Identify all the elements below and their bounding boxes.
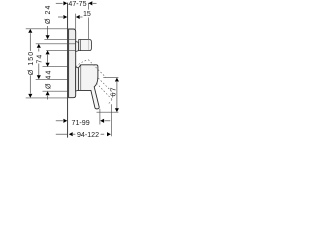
dim dia150 bottom arrow	[28, 94, 32, 98]
ext sleeve bottom	[43, 90, 68, 92]
hub sleeve/pedestal	[76, 67, 79, 91]
dim 94-122 left arrow	[69, 132, 73, 136]
svg-text:Ø 24: Ø 24	[45, 5, 52, 24]
dim dia24 top arrow	[46, 35, 50, 39]
knob collar line	[79, 40, 81, 51]
dim dia44 top arrow	[46, 63, 50, 67]
svg-text:47-75: 47-75	[68, 0, 86, 8]
svg-text:Ø 150: Ø 150	[28, 51, 35, 75]
escutcheon plate	[69, 29, 76, 98]
ext knob top	[44, 38, 75, 40]
ext lever axis right	[103, 77, 118, 79]
ext line dashed tip x=111.4	[110, 104, 112, 136]
dashed raised-handle outer edge	[88, 60, 106, 78]
dim 74 bottom arrow	[37, 75, 41, 79]
dim dia24 line upper	[47, 26, 49, 36]
ext line plate top	[26, 28, 68, 30]
dim 94-122 left tail	[56, 133, 68, 135]
dim dia24 bottom arrow	[46, 51, 50, 55]
ext line lever axis left	[36, 78, 68, 80]
dim 67 top arrow	[115, 78, 119, 82]
ext line solid lever tip x=99.9	[99, 109, 101, 125]
dim dia44 bottom tail	[47, 96, 49, 100]
ext line 47-75 right (knob chamfer)	[87, 3, 89, 10]
dim dia150 line lower	[29, 75, 31, 93]
knob chamfer line	[88, 40, 90, 51]
dim 74 line lower	[38, 64, 40, 76]
svg-text:94-122: 94-122	[77, 131, 99, 139]
dim 74 line upper	[38, 48, 40, 51]
dim 71-99 right tail	[105, 120, 111, 122]
dim 47-75 right tail	[93, 2, 97, 4]
dim 15 right tail	[80, 16, 82, 18]
dim 71-99 left arrow	[63, 119, 67, 123]
svg-text:15: 15	[83, 10, 91, 18]
svg-text:67: 67	[108, 86, 117, 96]
dim 67 bottom arrow	[115, 108, 119, 112]
dim 71-99 right arrow	[100, 119, 104, 123]
dim dia150 line upper	[29, 33, 31, 51]
ext knob bottom	[46, 49, 76, 51]
dim 74 top arrow	[37, 44, 41, 48]
svg-text:74: 74	[36, 54, 43, 64]
svg-text:71-99: 71-99	[72, 119, 90, 127]
dim 94-122 inner tail right	[101, 133, 105, 135]
svg-text:Ø 44: Ø 44	[46, 70, 53, 89]
knob pedestal	[76, 42, 79, 52]
dashed raised-handle arc	[76, 60, 88, 67]
dashed raised-handle middle edge	[98, 78, 112, 92]
ext line plate bottom	[26, 97, 68, 99]
text 15	[83, 10, 92, 17]
dim 15 left arrow	[63, 15, 67, 19]
dim 94-122 inner tail left	[73, 133, 75, 135]
wall line	[67, 3, 69, 138]
dashed raised-handle inner edge	[96, 83, 112, 100]
knob head	[79, 40, 92, 51]
dim 94-122 right arrow	[107, 132, 111, 136]
dim 15 left tail	[58, 16, 63, 18]
dim 47-75 left arrow	[63, 1, 67, 5]
dim dia150 top arrow	[28, 29, 32, 33]
hub collar line	[80, 65, 82, 90]
ext line 15 right (plate front)	[75, 14, 77, 30]
dim 15 right arrow	[76, 15, 80, 19]
ext line knob axis	[36, 43, 76, 45]
dim dia44 bottom arrow	[46, 91, 50, 95]
dim 47-75 left tail	[56, 2, 63, 4]
dim 71-99 left tail	[56, 120, 63, 122]
hub dome + lever	[78, 65, 99, 109]
dim 47-75 right arrow	[88, 1, 92, 5]
ext lever tip bottom	[97, 111, 119, 113]
dim line between dia24 and dia44	[47, 55, 49, 63]
dashed raised-handle tip cap	[108, 92, 112, 103]
ext sleeve top	[43, 66, 68, 68]
dim 67 line	[116, 82, 118, 109]
